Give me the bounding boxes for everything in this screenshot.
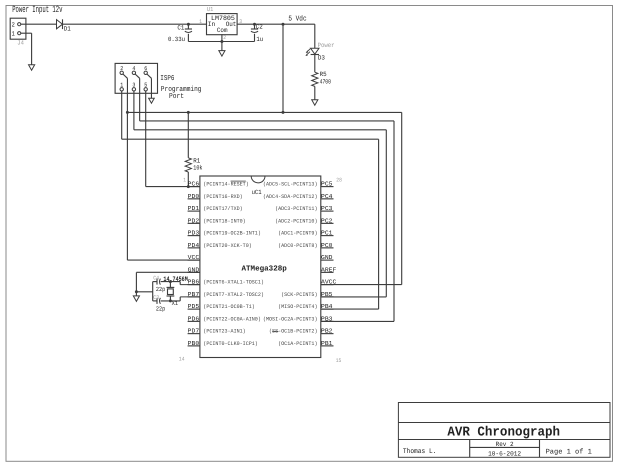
- uC1 right pin PC0: [321, 247, 334, 249]
- svg-text:C3: C3: [153, 294, 159, 301]
- uC1 left pin PD5: [188, 308, 200, 310]
- svg-text:1: 1: [183, 176, 186, 183]
- LED D3: [311, 48, 319, 54]
- svg-text:VCC: VCC: [188, 254, 200, 261]
- svg-text:Page 1 of 1: Page 1 of 1: [546, 447, 592, 456]
- svg-text:PB2: PB2: [321, 328, 333, 335]
- uC1 right pin PC4: [321, 198, 334, 200]
- wire VCC bus to AVCC: [126, 111, 129, 114]
- uC1 right pin PB1: [321, 345, 334, 347]
- svg-text:0.33u: 0.33u: [168, 36, 185, 43]
- svg-text:(PCINT23-AIN1): (PCINT23-AIN1): [203, 329, 245, 335]
- ground (ISP): [149, 98, 155, 103]
- uC1 left pin GND: [188, 271, 200, 273]
- connector ISP6: [115, 63, 157, 93]
- uC1 left pin PD4: [188, 247, 200, 249]
- svg-text:(PCINT7-XTAL2-TOSC2): (PCINT7-XTAL2-TOSC2): [203, 292, 264, 298]
- uC1 right pin PB3: [321, 320, 334, 322]
- uC1 right pin PC1: [321, 235, 334, 237]
- svg-text:14.7456M: 14.7456M: [163, 276, 187, 284]
- uC1 left pin PD2: [188, 222, 200, 224]
- svg-text:AREF: AREF: [321, 266, 337, 273]
- uC1 right pin PC5: [321, 186, 334, 188]
- svg-text:Rev 2: Rev 2: [496, 441, 514, 448]
- ground (uC1 GND): [133, 296, 139, 301]
- uC1 left pin PB6: [188, 284, 200, 286]
- svg-text:J4: J4: [17, 40, 24, 47]
- svg-text:In: In: [208, 21, 215, 28]
- svg-text:(ADC0-PCINT8): (ADC0-PCINT8): [278, 243, 317, 249]
- overline RESET: [231, 180, 246, 182]
- svg-text:Power Input 12v: Power Input 12v: [12, 4, 62, 15]
- capacitor C3: [153, 300, 157, 302]
- wire XTAL2 node: [161, 300, 181, 302]
- uC1 left pin PD0: [188, 198, 200, 200]
- svg-text:Power: Power: [318, 42, 335, 49]
- svg-text:ISP6: ISP6: [160, 75, 174, 83]
- svg-text:R1: R1: [193, 158, 200, 165]
- svg-text:R5: R5: [320, 71, 327, 78]
- uC1 left pin PD1: [188, 210, 200, 212]
- svg-text:C1: C1: [177, 25, 184, 32]
- svg-text:PD3: PD3: [188, 230, 200, 237]
- ground (regulator): [219, 51, 225, 56]
- uC1 ATMega328p body: [200, 176, 321, 358]
- svg-text:1u: 1u: [256, 36, 263, 43]
- svg-text:Port: Port: [169, 93, 184, 101]
- svg-text:PB1: PB1: [321, 340, 333, 347]
- svg-text:(PCINT20-XCK-T0): (PCINT20-XCK-T0): [203, 243, 251, 249]
- svg-text:(PCINT17/TXD): (PCINT17/TXD): [203, 206, 242, 212]
- capacitor C2: [253, 23, 256, 26]
- svg-text:(PCINT16-RXD): (PCINT16-RXD): [203, 194, 242, 200]
- svg-text:2: 2: [223, 34, 226, 41]
- svg-text:(ADC1-PCINT9): (ADC1-PCINT9): [278, 231, 317, 237]
- connector J4: [10, 18, 26, 39]
- svg-text:(OC1A-PCINT1): (OC1A-PCINT1): [278, 341, 317, 347]
- svg-text:U1: U1: [207, 6, 214, 13]
- title block: [398, 403, 610, 458]
- svg-text:ATMega328p: ATMega328p: [242, 264, 288, 273]
- svg-text:(PCINT19-OC2B-INT1): (PCINT19-OC2B-INT1): [203, 231, 261, 237]
- svg-text:(SCK-PCINT5): (SCK-PCINT5): [281, 292, 317, 298]
- svg-text:(MOSI-OC2A-PCINT3): (MOSI-OC2A-PCINT3): [263, 316, 318, 322]
- resistor R1 pullup: [187, 111, 190, 114]
- svg-text:(PCINT0-CLK0-ICP1): (PCINT0-CLK0-ICP1): [203, 341, 258, 347]
- crystal X1: [169, 282, 171, 288]
- svg-text:(PCINT14-RESET): (PCINT14-RESET): [203, 182, 248, 188]
- wire MISO: ISP pin1 to PB4: [121, 93, 123, 139]
- svg-text:2: 2: [12, 22, 15, 29]
- capacitor C1: [187, 23, 190, 26]
- uC1 left pin PB0: [188, 345, 200, 347]
- wire cap common: [152, 282, 154, 301]
- wire U1 Out / 5 Vdc rail: [237, 23, 315, 25]
- uC1 left pin PC6: [188, 186, 200, 188]
- wire SCK: ISP pin3 to PB5: [133, 93, 135, 130]
- svg-text:PD6: PD6: [188, 315, 200, 322]
- wire RESET: ISP pin5 to PC6: [145, 93, 147, 186]
- svg-text:PD4: PD4: [188, 242, 200, 249]
- wire XTAL1 node: [161, 281, 181, 283]
- svg-text:PB3: PB3: [321, 315, 333, 322]
- svg-text:AVCC: AVCC: [321, 279, 337, 286]
- svg-text:28: 28: [336, 176, 342, 183]
- overline SS: [272, 330, 278, 332]
- uC1 right pin PB2: [321, 333, 334, 335]
- svg-text:22p: 22p: [156, 286, 166, 293]
- capacitor C4: [153, 281, 157, 283]
- svg-text:(MISO-PCINT4): (MISO-PCINT4): [278, 304, 317, 310]
- uC1 right pin PB5: [321, 296, 334, 298]
- svg-text:(PCINT6-XTAL1-TOSC1): (PCINT6-XTAL1-TOSC1): [203, 280, 264, 286]
- svg-text:PC2: PC2: [321, 217, 333, 224]
- svg-text:uC1: uC1: [252, 189, 262, 196]
- svg-text:(ADC3-PCINT11): (ADC3-PCINT11): [275, 206, 317, 212]
- svg-text:15: 15: [336, 357, 342, 364]
- svg-text:AVR Chronograph: AVR Chronograph: [447, 425, 560, 440]
- U1 Com pin to ground: [221, 34, 223, 50]
- svg-text:PB4: PB4: [321, 303, 333, 310]
- svg-text:1: 1: [12, 31, 15, 38]
- svg-text:PD1: PD1: [188, 205, 200, 212]
- wire J4 pin1 to ground: [21, 32, 32, 34]
- svg-text:(PCINT22-OC0A-AIN0): (PCINT22-OC0A-AIN0): [203, 316, 261, 322]
- uC1 right pin PC2: [321, 222, 334, 224]
- uC1 left pin PD7: [188, 333, 200, 335]
- svg-text:PC3: PC3: [321, 205, 333, 212]
- wire R5 to ground: [314, 86, 316, 99]
- svg-text:5 Vdc: 5 Vdc: [288, 15, 306, 24]
- wire VCC: ISP pin2 down to uC1 VCC: [126, 93, 128, 260]
- uC1 left pin PD3: [188, 235, 200, 237]
- wire C1-Com-C2 ground link: [188, 41, 254, 43]
- svg-text:(ADC4-SDA-PCINT12): (ADC4-SDA-PCINT12): [263, 194, 318, 200]
- diode D1: [57, 20, 63, 29]
- svg-text:PD5: PD5: [188, 303, 200, 310]
- svg-text:PB0: PB0: [188, 340, 200, 347]
- svg-text:PC0: PC0: [321, 242, 333, 249]
- svg-text:PC1: PC1: [321, 230, 333, 237]
- svg-text:PB5: PB5: [321, 291, 333, 298]
- ground (input): [29, 65, 35, 70]
- svg-text:PC5: PC5: [321, 181, 333, 188]
- uC1 right pin GND: [321, 259, 334, 261]
- svg-text:PC4: PC4: [321, 193, 333, 200]
- svg-text:D1: D1: [64, 25, 71, 32]
- svg-text:C4: C4: [153, 274, 160, 281]
- regulator U1 LM7805: [207, 14, 238, 35]
- resistor R5: [312, 72, 318, 86]
- LED D3 branch wire: [314, 24, 316, 48]
- ISP pin6 to ground: [150, 93, 152, 98]
- uC1 right pin PC3: [321, 210, 334, 212]
- uC1 right pin AVCC: [321, 284, 334, 286]
- wire GND pin to ground: [136, 271, 200, 273]
- svg-text:10k: 10k: [193, 165, 202, 172]
- svg-text:22p: 22p: [156, 305, 166, 312]
- wire ground to caps: [136, 291, 152, 293]
- svg-text:GND: GND: [321, 254, 333, 261]
- wire LED to R5: [314, 55, 316, 73]
- wire 5Vdc down to VCC bus: [282, 23, 285, 26]
- svg-text:PD0: PD0: [188, 193, 200, 200]
- wire J4 pin2 to D1: [21, 23, 57, 25]
- svg-text:(PCINT18-INT0): (PCINT18-INT0): [203, 218, 245, 224]
- svg-text:(ADC2-PCINT10): (ADC2-PCINT10): [275, 218, 317, 224]
- wire D1 to U1 In: [63, 23, 207, 25]
- svg-text:10-6-2012: 10-6-2012: [488, 451, 521, 458]
- uC1 right pin AREF: [321, 271, 334, 273]
- svg-text:(PCINT21-OC0B-T1): (PCINT21-OC0B-T1): [203, 304, 255, 310]
- svg-text:D3: D3: [318, 55, 325, 62]
- uC1 left pin PB7: [188, 296, 200, 298]
- svg-text:PD7: PD7: [188, 328, 200, 335]
- svg-text:(ADC5-SCL-PCINT13): (ADC5-SCL-PCINT13): [263, 182, 318, 188]
- uC1 left pin PD6: [188, 320, 200, 322]
- svg-text:PD2: PD2: [188, 217, 200, 224]
- svg-text:14: 14: [179, 356, 185, 363]
- ground (LED): [312, 100, 318, 105]
- uC1 left pin VCC: [188, 259, 200, 261]
- svg-text:Thomas L.: Thomas L.: [403, 447, 437, 456]
- uC1 right pin PB4: [321, 308, 334, 310]
- svg-text:PC6: PC6: [188, 181, 200, 188]
- svg-text:4700: 4700: [320, 78, 332, 85]
- svg-text:X1: X1: [172, 300, 179, 307]
- wire MOSI: ISP pin4 to PB3: [139, 93, 141, 121]
